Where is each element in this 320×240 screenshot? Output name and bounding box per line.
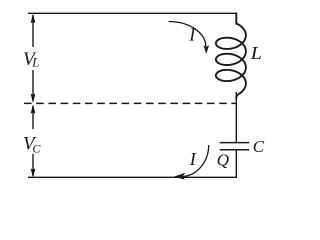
svg-text:I: I	[189, 149, 197, 169]
dashed node line	[24, 102, 236, 104]
V_L arrowhead up	[31, 14, 36, 23]
wire bottom	[28, 176, 237, 178]
wire right lower	[235, 150, 237, 178]
wire top	[28, 12, 237, 14]
current arrow top (arc)	[169, 22, 206, 47]
svg-text:VC: VC	[23, 134, 41, 156]
svg-text:L: L	[250, 44, 262, 64]
current arrow top head	[203, 45, 209, 54]
label L	[250, 44, 262, 64]
V_L arrowhead down	[31, 94, 36, 103]
capacitor C plates	[220, 142, 250, 144]
wire right middle	[235, 92, 237, 143]
current arrow bottom head	[174, 173, 186, 180]
V_C dimension arrow shafts	[32, 106, 34, 129]
V_C arrowhead down	[31, 168, 36, 177]
current arrow bottom (arc)	[181, 145, 209, 177]
V_C arrowhead up	[31, 104, 36, 113]
inductor L coil	[216, 13, 246, 98]
svg-text:C: C	[253, 137, 265, 156]
V_L dimension arrow shafts	[32, 15, 34, 47]
svg-text:I: I	[188, 25, 196, 45]
wire right upper	[235, 13, 237, 24]
svg-text:VL: VL	[23, 49, 39, 70]
svg-text:Q: Q	[217, 151, 229, 170]
